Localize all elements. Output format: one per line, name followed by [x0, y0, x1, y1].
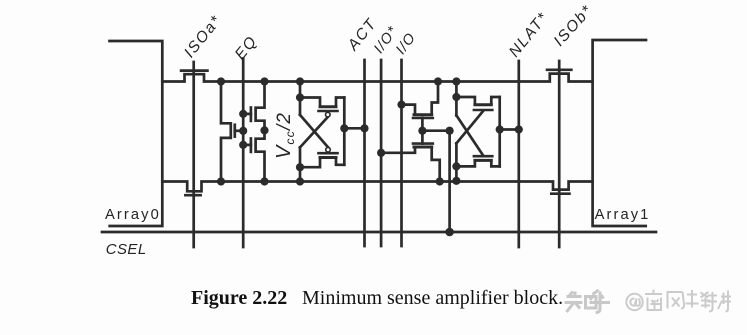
junction BL* x I/O* transistor lead: [436, 177, 444, 185]
junction BL* x Vcc/2 branch: [260, 177, 268, 185]
wire I/O signal line: [400, 60, 403, 246]
junction I/O gate node: [418, 127, 426, 135]
junction NSA lower lead: [452, 162, 460, 170]
transistor EQ equilibrate gate bar: [233, 125, 236, 137]
wire EQ signal line: [242, 59, 245, 248]
transistor NMOS top gate bar: [474, 109, 492, 112]
junction PSA lower lead: [296, 163, 304, 171]
wire PSA rail to ACT line: [344, 127, 364, 130]
transistor NMOS top channel: [475, 103, 491, 106]
wire Vcc/2 top gate to EQ line: [243, 113, 251, 116]
transistor PMOS top gate bar: [319, 110, 338, 113]
wire PSA common rail: [343, 98, 346, 165]
svg-text:Array1: Array1: [595, 207, 651, 223]
junction BL x EQ-branch: [217, 77, 225, 85]
junction BL x Vcc/2 branch: [260, 77, 268, 85]
wire Vcc/2 bottom gate to EQ line: [243, 144, 251, 147]
junction NLAT line node: [515, 125, 523, 133]
junction NSA rail node: [496, 125, 504, 133]
wire NLAT* signal line: [517, 61, 520, 247]
svg-text:Vcc/2: Vcc/2: [273, 112, 297, 159]
wire gate node to CSEL tap: [422, 129, 449, 132]
transistor I/O top gate bar: [413, 117, 433, 120]
wire ACT signal line: [363, 60, 366, 246]
svg-text:ISOa*: ISOa*: [181, 12, 225, 61]
wire ISOb* signal line: [558, 61, 561, 247]
transistor ISOb bottom gate bar: [551, 192, 569, 195]
svg-text:Figure 2.22: Figure 2.22: [191, 287, 287, 309]
node Vcc/2 midpoint: [260, 126, 268, 134]
transistor Vcc/2 bottom leads and channel: [256, 130, 265, 181]
transistor ISOa bottom gate bar: [185, 194, 200, 197]
transistor I/O* bottom gate bar: [413, 142, 433, 145]
transistor PMOS top gate bubble: [326, 112, 331, 117]
transistor I/O top leads: [402, 82, 439, 114]
junction BL x PSA branch: [296, 77, 304, 85]
junction BL x NSA branch: [452, 77, 460, 85]
transistor PMOS top channel: [320, 105, 336, 108]
wire NSA common rail: [498, 97, 501, 166]
transistor NMOS bottom leads: [456, 162, 499, 167]
junction I/O* line node: [377, 149, 385, 157]
svg-text:ISOb*: ISOb*: [551, 2, 597, 50]
junction I/O line node: [397, 101, 405, 109]
wire NSA left upper branch: [455, 82, 458, 116]
transistor I/O* bottom leads: [381, 147, 440, 182]
transistor PMOS bottom gate bar: [319, 152, 338, 155]
wire NSA cross couple diagonal to top gate: [456, 111, 483, 143]
transistor I/O top channel: [414, 113, 432, 116]
wire PSA cross couple diagonal to bottom gate: [300, 115, 328, 147]
wire NSA cross couple diagonal to bottom gate: [456, 115, 483, 155]
junction PSA upper lead: [296, 93, 304, 101]
junction CSEL tap top: [446, 127, 454, 135]
wire shared CSEL gate line: [421, 118, 424, 144]
wire EQ equilibrate gate to EQ line: [235, 129, 243, 132]
transistor ISOa top gate bar: [181, 69, 207, 72]
transistor NMOS top leads: [456, 97, 499, 103]
svg-text:NLAT*: NLAT*: [506, 9, 552, 61]
wire NSA rail to NLAT line: [500, 128, 519, 131]
junction EQ line top gate: [239, 110, 247, 118]
transistor Vcc/2 top leads and channel: [256, 82, 265, 131]
junction BL* x NSA branch: [452, 177, 460, 185]
junction PSA rail node: [340, 124, 348, 132]
wire I/O* signal line: [380, 60, 383, 246]
wire CSEL tap vertical: [448, 131, 451, 232]
transistor PMOS bottom leads: [300, 159, 344, 167]
transistor ISOb top gate bar: [547, 68, 571, 71]
transistor Vcc/2 bottom gate bar: [250, 139, 253, 152]
transistor PMOS bottom channel: [320, 156, 336, 159]
transistor PMOS top leads: [300, 98, 344, 106]
wire ISOa* signal line: [192, 62, 195, 247]
transistor NMOS bottom channel: [475, 159, 491, 162]
transistor I/O* bottom channel: [414, 146, 432, 149]
junction BL* x PSA branch: [296, 177, 304, 185]
junction NSA upper lead: [452, 93, 460, 101]
svg-text:Array0: Array0: [105, 207, 161, 223]
wire bitline BL* bottom (with ISO channel dips): [162, 182, 592, 192]
svg-text:EQ: EQ: [232, 33, 261, 64]
wire bitline BL top (with ISO channel humps): [162, 74, 592, 82]
watermark zhihu: [565, 290, 611, 313]
wire PSA left lower branch: [299, 147, 302, 181]
Array1 boundary outline: [593, 40, 646, 226]
svg-text:CSEL: CSEL: [106, 241, 147, 258]
transistor EQ equilibrate body and leads: [221, 82, 231, 182]
wire PSA left upper branch: [299, 82, 302, 115]
svg-text:Minimum sense amplifier block.: Minimum sense amplifier block.: [302, 287, 563, 309]
transistor NMOS bottom gate bar: [474, 155, 492, 158]
wire NSA left lower branch: [455, 143, 458, 181]
Array0 boundary outline: [110, 41, 163, 226]
junction EQ line bottom gate: [239, 141, 247, 149]
transistor Vcc/2 top gate bar: [250, 108, 253, 121]
junction EQ line middle gate: [239, 127, 247, 135]
wire PSA cross couple diagonal to top gate: [300, 117, 328, 147]
junction CSEL tap bottom on CSEL bus: [445, 228, 454, 237]
junction BL* x EQ-branch: [217, 177, 225, 185]
transistor PMOS bottom gate bubble: [326, 147, 331, 152]
junction ACT line node: [360, 124, 368, 132]
CSEL bus wire: [102, 231, 656, 234]
junction BL x I/O transistor lead: [434, 77, 442, 85]
